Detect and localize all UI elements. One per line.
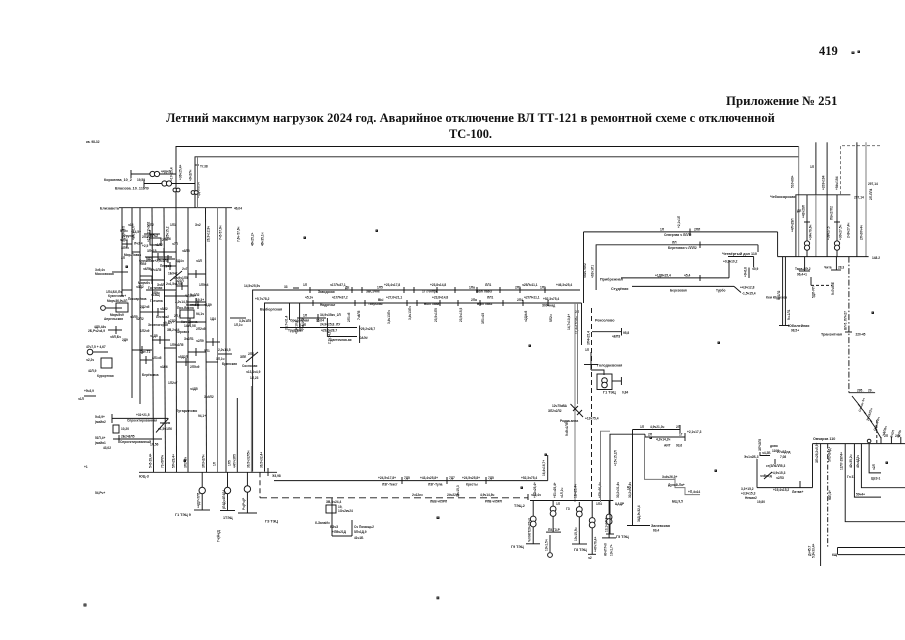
svg-text:БЩ 9,5: БЩ 9,5 (672, 500, 683, 504)
bus ТЭЦ-2 (514, 501, 625, 509)
svg-text:1Л: 1Л (213, 461, 217, 466)
svg-text:3,4ч13Лч: 3,4ч13Лч (387, 310, 391, 324)
svg-text:Сосновая: Сосновая (242, 364, 258, 368)
svg-text:ч8Л5: ч8Л5 (182, 249, 190, 253)
svg-text:2,2ч14,5: 2,2ч14,5 (218, 348, 231, 352)
svg-text:1Л1: 1Л1 (170, 223, 176, 227)
svg-text:ч27Лч11,1: ч27Лч11,1 (524, 296, 540, 300)
node bus1 right end (268, 468, 281, 478)
node cluster Юрьевна (175, 294, 206, 309)
title line 1 (0, 111, 905, 126)
svg-text:96,4+1: 96,4+1 (797, 273, 807, 277)
svg-text:+ЛВч21Д: +ЛВч21Д (332, 530, 347, 534)
wire spine upper (583, 232, 585, 303)
svg-text:1Л: 1Л (585, 348, 590, 352)
svg-text:+12ч75,4: +12ч75,4 (585, 417, 599, 421)
svg-text:+52,3ч75,4: +52,3ч75,4 (543, 297, 559, 301)
svg-text:ЗЛЧ2Л5: ЗЛЧ2Л5 (758, 439, 762, 451)
svg-text:Власова_10_1: Власова_10_1 (115, 187, 141, 191)
svg-text:Гч(йч(Д: Гч(йч(Д (217, 529, 221, 542)
svg-text:1Д4: 1Д4 (210, 317, 216, 321)
svg-text:297,14: 297,14 (854, 196, 864, 200)
node cluster below dashed (315, 498, 374, 540)
wire column v122 (121, 208, 123, 296)
svg-text:ч5Д2Л: ч5Д2Л (178, 355, 189, 359)
svg-text:ЛЛ: ЛЛ (672, 241, 677, 245)
svg-text:ч2Д4ч5: ч2Д4ч5 (524, 310, 528, 322)
svg-text:5Д2: 5Д2 (146, 257, 152, 261)
svg-text:ЮЦ-3: ЮЦ-3 (139, 475, 149, 479)
wire column v132 (131, 208, 133, 398)
svg-text:1Л2ч9: 1Л2ч9 (140, 329, 150, 333)
node cluster АИТ (614, 425, 702, 466)
svg-text:14,5ч25,5ч: 14,5ч25,5ч (244, 284, 260, 288)
svg-text:42Л,9: 42Л,9 (88, 369, 97, 373)
svg-text:кв. 98-32: кв. 98-32 (86, 140, 100, 144)
transformer v837 (827, 195, 843, 257)
svg-text:Прибрежная: Прибрежная (600, 278, 623, 282)
node tick T4b (434, 287, 440, 322)
svg-text:+29,2ч28,7: +29,2ч28,7 (359, 327, 375, 331)
node cluster left texture labels (120, 223, 216, 399)
svg-text:2Л: 2Л (302, 323, 307, 327)
svg-text:1Л,56: 1Л,56 (150, 443, 159, 447)
svg-text:46ч35,1ч: 46ч35,1ч (261, 232, 265, 246)
svg-text:ч9Л,Бч: ч9Л,Бч (110, 335, 121, 339)
svg-text:Рексолово: Рексолово (595, 319, 615, 323)
svg-text:Березовая: Березовая (670, 289, 687, 293)
node Тара (795, 257, 832, 298)
svg-text:ВЛ-5_ЛЛч27: ВЛ-5_ЛЛч27 (843, 311, 847, 330)
svg-text:1Оч2кч24: 1Оч2кч24 (338, 509, 353, 513)
svg-text:9ч1Л2: 9ч1Л2 (777, 290, 781, 300)
svg-text:Эч1ч2Б,3: Эч1ч2Б,3 (744, 455, 759, 459)
wire v845 L (840, 444, 905, 522)
svg-text:24ч22кч: 24ч22кч (447, 493, 459, 497)
node cluster Энгельс (741, 439, 813, 504)
svg-text:Г5 ТЭЦ: Г5 ТЭЦ (616, 535, 629, 539)
wire bottom stubs right (838, 548, 905, 555)
label Тугариново (176, 409, 206, 418)
svg-text:14,7ч10,4+: 14,7ч10,4+ (567, 314, 571, 330)
svg-text:1Л: 1Л (640, 425, 645, 429)
node tick T4 (422, 283, 463, 322)
svg-text:Г8 ТЭЦ: Г8 ТЭЦ (574, 548, 587, 552)
wire Заневская riser (627, 430, 670, 533)
svg-text:Апрельская: Апрельская (104, 317, 123, 321)
wire stub v299 (295, 303, 300, 334)
svg-text:Дунай-Ла+: Дунай-Ла+ (668, 483, 685, 487)
svg-text:7ч8Л5: 7ч8Л5 (357, 310, 361, 320)
svg-text:69,4: 69,4 (653, 529, 659, 533)
node cluster Мир-Речка (101, 290, 129, 321)
wire v866 (865, 142, 867, 256)
svg-text:2Л,9: 2Л,9 (174, 314, 181, 318)
svg-text:Транзитная: Транзитная (821, 333, 842, 337)
node tick T5b (477, 287, 485, 324)
svg-text:ЗВС2чне: ЗВС2чне (366, 290, 380, 294)
svg-text:5Лч1Д,9: 5Лч1Д,9 (354, 530, 367, 534)
node cluster left texture labels 2 (128, 235, 212, 353)
generator Г8 ТЭЦ (566, 502, 587, 552)
wire column v226 (225, 208, 227, 473)
wire column v164 (164, 208, 166, 473)
svg-text:7Д7: 7Д7 (449, 476, 455, 480)
svg-text:(майя2: (майя2 (95, 420, 106, 424)
wire long feeder y480 (274, 455, 548, 481)
svg-text:Четвёртый дол 110: Четвёртый дол 110 (722, 252, 757, 256)
svg-text:95,8: 95,8 (623, 331, 629, 335)
wire top stubs on Овчарка (881, 434, 901, 444)
svg-text:2Л: 2Л (648, 433, 653, 437)
svg-text:46ч25,2+: 46ч25,2+ (251, 232, 255, 246)
svg-text:295_: 295_ (857, 389, 864, 393)
wire v854 L (847, 444, 881, 498)
node cluster Мурманская (122, 230, 168, 245)
svg-text:Надречье: Надречье (320, 303, 336, 307)
label under-bus rotated (301, 310, 391, 330)
svg-text:ч2Л: ч2Л (872, 463, 876, 470)
svg-text:ЦАДР: ЦАДР (615, 502, 625, 506)
svg-text:+46,3ч25,4: +46,3ч25,4 (556, 283, 572, 287)
svg-text:Пискарёвка: Пискарёвка (128, 297, 147, 301)
svg-text:2Л2ч5: 2Л2ч5 (196, 327, 206, 331)
svg-text:ГЗ ТЭЦ: ГЗ ТЭЦ (265, 520, 278, 524)
svg-text:+203ч194: +203ч194 (822, 175, 826, 190)
svg-text:7,6ч-57,6ч: 7,6ч-57,6ч (237, 226, 241, 242)
svg-text:220-45: 220-45 (856, 333, 866, 337)
svg-text:2Л5ч9: 2Л5ч9 (190, 365, 200, 369)
node cluster Гостиная (138, 281, 182, 297)
svg-text:(майя1: (майя1 (95, 441, 106, 445)
svg-text:ч4Д5: ч4Д5 (190, 387, 198, 391)
svg-text:П5.ГЗ.Р: П5.ГЗ.Р (548, 528, 561, 532)
svg-text:ч1Д9: ч1Д9 (204, 303, 212, 307)
wire top line A (176, 147, 799, 208)
svg-text:+4Д7ч7Л5: +4Д7ч7Л5 (197, 492, 201, 508)
svg-text:1Л5: 1Л5 (228, 460, 232, 466)
transformer ct pair on riser 176 (173, 188, 180, 192)
svg-text:5,9ч33,4+: 5,9ч33,4+ (812, 544, 816, 558)
svg-text:Зч2: Зч2 (195, 223, 201, 227)
node cluster Оредежская (290, 313, 342, 323)
svg-text:23,5ч1Л5: 23,5ч1Л5 (434, 308, 438, 322)
svg-text:1Л9ч2Л5: 1Л9ч2Л5 (170, 343, 184, 347)
svg-text:24,9ч25,8_ЛУ: 24,9ч25,8_ЛУ (320, 323, 341, 327)
wire gray steps right (645, 437, 701, 504)
svg-text:+34ч79,6ч: +34ч79,6ч (809, 225, 813, 240)
svg-text:5ч3,9+: 5ч3,9+ (95, 415, 105, 419)
svg-text:1Г: 1Г (679, 433, 683, 437)
svg-text:2Л1ч5: 2Л1ч5 (347, 312, 351, 322)
svg-text:+23,8ч14,8: +23,8ч14,8 (432, 296, 448, 300)
wire right drop from line A (798, 147, 800, 257)
svg-text:РЛВ ч05РЛ: РЛВ ч05РЛ (485, 500, 503, 504)
svg-text:42ч35,2ч: 42ч35,2ч (849, 454, 853, 468)
label 41ч9 (170, 271, 188, 281)
generator Г5 ТЭЦ (545, 501, 562, 558)
svg-text:+31+21,5: +31+21,5 (136, 413, 150, 417)
svg-text:5ДЛ-РЛ: 5ДЛ-РЛ (812, 286, 816, 298)
svg-text:2Л9ч: 2Л9ч (152, 291, 160, 295)
wire spine double (575, 303, 582, 502)
label Элла-майя1 (95, 436, 111, 450)
svg-text:3Л4ч15,4: 3Л4ч15,4 (587, 331, 591, 345)
svg-text:ч2ч1Л5: ч2ч1Л5 (150, 268, 161, 272)
svg-text:ч5Л2: ч5Л2 (160, 307, 168, 311)
svg-text:Выборгская: Выборгская (260, 308, 282, 312)
svg-text:ч2Л9: ч2Л9 (196, 339, 204, 343)
svg-text:+5,7ч78,2: +5,7ч78,2 (255, 297, 270, 301)
svg-text:1Л: 1Л (303, 283, 308, 287)
svg-text:ЗЛ9ч: ЗЛ9ч (121, 246, 129, 250)
node Рексолово (587, 319, 630, 346)
svg-text:1Л: 1Л (660, 228, 665, 232)
svg-text:2Лч97ч4ч: 2Лч97ч4ч (860, 225, 864, 240)
svg-text:+9ч0,8: +9ч0,8 (744, 267, 748, 277)
svg-text:2Б,Рч2ч4,9: 2Б,Рч2ч4,9 (88, 329, 105, 333)
svg-text:110б: 110б (772, 449, 779, 453)
svg-text:Турбо: Турбо (716, 289, 725, 293)
bus middle lower (265, 303, 582, 472)
label riser values (170, 165, 201, 198)
label column tops (122, 222, 265, 246)
svg-text:ВолГлава: ВолГлава (424, 302, 440, 306)
wire v861 L (856, 444, 905, 488)
wire Чебоксарская line (770, 195, 864, 200)
wire column v152 (152, 208, 154, 473)
svg-text:Колпино: Колпино (186, 303, 200, 307)
svg-text:36,5ч32Л5ч: 36,5ч32Л5ч (246, 450, 250, 468)
svg-text:ВолГлав2: ВолГлав2 (477, 302, 493, 306)
wire v816 lower (815, 195, 817, 257)
transformer diagonal Лесогорская (548, 404, 599, 436)
svg-text:+4Лч29Л: +4Лч29Л (790, 218, 794, 232)
svg-text:Связь-2ч: Связь-2ч (873, 416, 881, 431)
svg-text:Гатчина: Гатчина (150, 299, 163, 303)
svg-text:1Л,1ч: 1Л,1ч (234, 323, 243, 327)
svg-text:ч1Л2: ч1Л2 (155, 243, 163, 247)
bus Овчарка 110 (813, 437, 905, 444)
bus Елизаветинская 110 (100, 207, 242, 211)
svg-text:Юбилейная: Юбилейная (788, 324, 809, 328)
svg-text:ч2ЛЗ: ч2ЛЗ (776, 476, 784, 480)
svg-text:б-ЗанаИч: б-ЗанаИч (315, 521, 330, 525)
svg-text:+30ч27,5ч: +30ч27,5ч (839, 225, 843, 240)
wire diagonal to Тугариново (156, 418, 172, 432)
svg-text:28,3: 28,3 (838, 266, 844, 270)
svg-text:50ч4+: 50ч4+ (856, 493, 865, 497)
transformer T-Власова (144, 180, 195, 187)
svg-text:ч17Лч37,2: ч17Лч37,2 (332, 296, 348, 300)
svg-text:Связь-1ч: Связь-1ч (858, 397, 866, 412)
svg-text:ч2: ч2 (588, 556, 592, 560)
svg-text:ч4Г/ч3Л5: ч4Г/ч3Л5 (232, 454, 236, 468)
transformer ct pair on riser 195 (191, 191, 198, 195)
svg-text:ЗЛ2ч2Л2: ЗЛ2ч2Л2 (548, 409, 562, 413)
wire stub v289 (285, 303, 290, 330)
svg-text:0,84: 0,84 (622, 391, 628, 395)
node ticks 158-175 (158, 255, 175, 263)
svg-text:Овчарка 110: Овчарка 110 (813, 437, 835, 441)
svg-text:1Л: 1Л (556, 502, 561, 506)
svg-text:5чВч1Л5ч: 5чВч1Л5ч (565, 421, 569, 436)
svg-text:ЗЛч29,2ч5,9+: ЗЛч29,2ч5,9+ (815, 443, 819, 463)
svg-text:+36ч25,4+: +36ч25,4+ (179, 165, 183, 180)
node tick T3b (414, 287, 417, 306)
svg-text:13ч1,7+: 13ч1,7+ (610, 544, 614, 556)
svg-text:ч17Лч37,1: ч17Лч37,1 (330, 283, 346, 287)
svg-text:94,1ч: 94,1ч (196, 312, 204, 316)
svg-text:+1: +1 (84, 465, 88, 469)
svg-text:+15ч15,2Л: +15ч15,2Л (614, 450, 618, 466)
svg-text:9Л5ч: 9Л5ч (120, 229, 128, 233)
svg-text:ч7Л: ч7Л (172, 242, 179, 246)
wire dashed feeder y498 (260, 472, 528, 500)
svg-text:5Л2ч: 5Л2ч (549, 314, 553, 322)
svg-text:13,1ч17,2: 13,1ч17,2 (605, 518, 609, 532)
svg-text:ЗЛЕ: ЗЛЕ (240, 355, 246, 359)
svg-text:+43,4ч25,8+: +43,4ч25,8+ (420, 476, 438, 480)
svg-text:24ч: 24ч (895, 434, 901, 438)
wire v812 drop (812, 444, 814, 488)
svg-text:ЛЕВ ч05РЛ: ЛЕВ ч05РЛ (430, 500, 448, 504)
svg-text:+4,9ч15,3: +4,9ч15,3 (771, 471, 786, 475)
svg-text:+27,6ч21,1: +27,6ч21,1 (386, 296, 402, 300)
label corner values (244, 284, 299, 301)
svg-text:Чита: Чита (824, 266, 832, 270)
wire left cluster stubs (132, 230, 220, 366)
svg-text:ЛБ9: ЛБ9 (140, 262, 147, 266)
svg-text:5ч2Л2: 5ч2Л2 (190, 293, 200, 297)
svg-text:2Л2: 2Л2 (148, 223, 154, 227)
svg-text:ЛЗГ-Тула: ЛЗГ-Тула (428, 483, 443, 487)
node cluster Фрунзенская (124, 249, 172, 263)
svg-text:2Б2ч8Л5: 2Б2ч8Л5 (121, 435, 135, 439)
svg-text:Зеленогорск: Зеленогорск (148, 323, 168, 327)
svg-text:7Д5: 7Д5 (488, 476, 494, 480)
title line 2 (0, 127, 905, 142)
svg-text:7Д5: 7Д5 (404, 476, 410, 480)
svg-text:ЗВ,Зч24,4: ЗВ,Зч24,4 (326, 500, 341, 504)
transformer v807 (802, 195, 813, 257)
svg-text:Сч Помощь2: Сч Помощь2 (354, 525, 374, 529)
svg-text:Г1 ТЭЦ 9: Г1 ТЭЦ 9 (175, 513, 191, 517)
svg-text:11,4ч17/1Бч: 11,4ч17/1Бч (575, 316, 579, 334)
svg-text:Кузнечная+: Кузнечная+ (108, 294, 126, 298)
svg-text:+4,9ч12,8: +4,9ч12,8 (740, 286, 755, 290)
svg-text:3,3+15,2: 3,3+15,2 (741, 487, 754, 491)
svg-text:3Д4ч: 3Д4ч (176, 259, 184, 263)
svg-text:+2,1ч17,3: +2,1ч17,3 (687, 430, 702, 434)
svg-text:ВЗчЗ: ВЗчЗ (330, 525, 338, 529)
svg-text:ч2,2ч: ч2,2ч (86, 358, 94, 362)
svg-text:+23,8ч14,8: +23,8ч14,8 (430, 283, 446, 287)
svg-text:2ч9ч27,4ч: 2ч9ч27,4ч (847, 223, 851, 238)
node ТС-38 tick (195, 165, 208, 169)
bus 148.2 (778, 232, 881, 260)
svg-text:1Л,23: 1Л,23 (250, 376, 259, 380)
svg-text:1Л1: 1Л1 (540, 286, 546, 290)
svg-text:ЛЛ1: ЛЛ1 (487, 296, 493, 300)
svg-text:Г9 ТЭЦ: Г9 ТЭЦ (511, 545, 524, 549)
wire top line B (195, 157, 799, 208)
svg-text:94,1+: 94,1+ (198, 414, 206, 418)
svg-text:19,3+: 19,3+ (196, 298, 204, 302)
bus middle upper (Выборгская) (253, 290, 580, 472)
svg-text:ВолГлавО: ВолГлавО (476, 290, 493, 294)
wire Юбилейная double drop (777, 257, 809, 333)
svg-text:ДЕ: ДЕ (345, 286, 349, 290)
wire Северная line (584, 215, 778, 237)
svg-text:Мир-Лавка: Мир-Лавка (124, 253, 141, 257)
svg-text:ст(ЗЛ6ЛЛ5,3: ст(ЗЛ6ЛЛ5,3 (766, 464, 785, 468)
node cluster 5ч3,9 low (78, 389, 96, 401)
wire column v176 (175, 208, 178, 473)
svg-text:ч1Д5: ч1Д5 (150, 334, 158, 338)
node tick T2 (318, 283, 361, 320)
svg-text:1Б9ч2: 1Б9ч2 (168, 272, 178, 276)
page number (819, 44, 838, 59)
svg-text:93,6: 93,6 (676, 444, 682, 448)
svg-text:+ЕЗч25,4+: +ЕЗч25,4+ (533, 482, 537, 498)
svg-text:19,80: 19,80 (757, 500, 765, 504)
svg-text:чЕПЗ: чЕПЗ (612, 335, 620, 339)
svg-text:ГЗ: ГЗ (566, 507, 570, 511)
svg-text:Голодаевская: Голодаевская (597, 364, 622, 368)
wire v197 gray (197, 157, 199, 208)
svg-text:+52,3ч75,4: +52,3ч75,4 (521, 476, 537, 480)
generator Г5 ТЭЦ right (602, 501, 629, 557)
svg-text:1Бч25,4ч: 1Бч25,4ч (574, 484, 578, 498)
svg-text:13ч15,5ч: 13ч15,5ч (574, 527, 578, 541)
svg-text:Северная ч ЛЛЛ2: Северная ч ЛЛЛ2 (664, 233, 692, 237)
svg-text:1Л4: 1Л4 (596, 502, 602, 506)
svg-text:ч4,2Б: ч4,2Б (762, 451, 771, 455)
svg-text:4,2ч14,2ч: 4,2ч14,2ч (656, 438, 670, 442)
svg-text:+9,3ч10,2: +9,3ч10,2 (723, 260, 738, 264)
wire v820 (808, 443, 821, 566)
svg-text:ч9ч2Лч: ч9ч2Лч (189, 170, 193, 181)
svg-text:Гн 31: Гн 31 (847, 475, 855, 479)
svg-text:1ТЭЦ: 1ТЭЦ (223, 516, 233, 520)
generator Г9 ТЭЦ (511, 501, 540, 550)
wire bracket 610 (605, 434, 646, 534)
svg-text:ч1,5ч1Л6: ч1,5ч1Л6 (158, 427, 172, 431)
svg-text:6Щ: 6Щ (832, 553, 838, 557)
svg-text:ЮЛ,4+: ЮЛ,4+ (828, 490, 832, 500)
svg-text:Кировск: Кировск (176, 330, 189, 334)
svg-text:47ч7,5 + 4,67: 47ч7,5 + 4,67 (86, 345, 106, 349)
svg-text:+2,5: +2,5 (142, 244, 149, 248)
wire column v217 (217, 208, 219, 473)
svg-text:ч22Л: ч22Л (176, 279, 184, 283)
node cluster дол 110 (722, 245, 759, 278)
wire v816 (815, 142, 817, 195)
svg-text:ч1Л: ч1Л (78, 397, 85, 401)
bus Прибрежная upper (600, 260, 729, 282)
svg-text:2ЛЛ: 2ЛЛ (694, 228, 701, 232)
svg-text:Родна-анна: Родна-анна (560, 419, 578, 423)
generator Г2 ТЭЦ (217, 472, 236, 542)
svg-text:30,2ч31,4ч: 30,2ч31,4ч (616, 482, 620, 498)
svg-text:+24,5ч25,8+: +24,5ч25,8+ (462, 476, 480, 480)
svg-text:16,4ч16,7+: 16,4ч16,7+ (542, 460, 546, 476)
node tick T6b (520, 287, 528, 322)
svg-text:+19,4ч15,2: +19,4ч15,2 (773, 488, 789, 492)
svg-text:4,9ч21,3ч: 4,9ч21,3ч (650, 425, 664, 429)
svg-text:Берёзовка: Берёзовка (142, 373, 159, 377)
